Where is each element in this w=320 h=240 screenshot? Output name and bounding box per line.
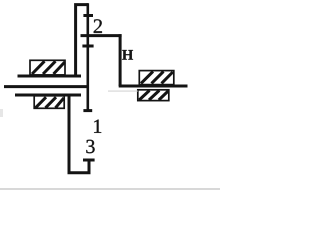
satellite gear 2 (vertical shaft segment) bbox=[87, 3, 90, 48]
bearing support lower-right (hatched) bbox=[138, 90, 169, 101]
scan artifact: bottom page edge line bbox=[0, 188, 220, 190]
label 3 bbox=[86, 140, 94, 153]
input shaft of sun gear 1 bbox=[4, 85, 89, 88]
label H bbox=[122, 50, 133, 60]
label 2 bbox=[94, 19, 102, 33]
frame wall upper-left bbox=[18, 75, 82, 78]
label 1 bbox=[94, 120, 101, 133]
ring gear 3 fixed link to frame bbox=[69, 96, 89, 173]
bearing support upper-left (hatched) bbox=[30, 60, 65, 75]
bearing support upper-right (hatched) bbox=[139, 71, 174, 85]
gear 2 lower rim tick bbox=[82, 45, 93, 48]
top bracket joining satellite shaft to carrier loop bbox=[76, 5, 88, 77]
frame wall lower-left bbox=[15, 94, 81, 97]
carrier H output shaft bbox=[119, 85, 188, 88]
scan artifact: faint ghost line under right shaft bbox=[108, 90, 138, 92]
carrier H vertical link bbox=[119, 34, 122, 86]
gear 2 upper rim tick bbox=[83, 14, 93, 17]
gear 1 rim tick bbox=[83, 109, 92, 112]
carrier H arm (horizontal satellite axis) bbox=[81, 34, 122, 37]
gear 3 rim tick bbox=[83, 159, 95, 162]
sun gear 1 (vertical segment below shaft) bbox=[87, 44, 90, 111]
bearing support lower-left (hatched) bbox=[34, 96, 64, 109]
scan artifact: faint left-edge smudge bbox=[0, 109, 3, 117]
